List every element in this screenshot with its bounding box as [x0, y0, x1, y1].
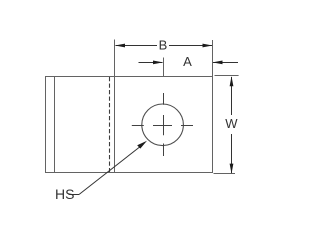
A left arrowhead (points right)	[153, 61, 163, 65]
dimension B line right part	[169, 45, 212, 47]
svg-text:HS: HS	[55, 186, 74, 202]
step edge / B extension line	[114, 40, 116, 173]
B left arrowhead	[115, 44, 125, 48]
svg-text:A: A	[183, 54, 192, 69]
block outline	[46, 77, 213, 173]
HS leader arrowhead	[137, 141, 147, 149]
HS leader stub	[69, 194, 80, 196]
dimension A right tail	[213, 62, 238, 64]
W top arrowhead (points up)	[230, 76, 234, 86]
centerline vertical top tick	[163, 93, 165, 105]
svg-text:B: B	[159, 37, 168, 52]
centerline horizontal left tick	[132, 125, 144, 127]
W bottom extension line	[214, 173, 236, 175]
B right arrowhead	[203, 44, 213, 48]
centerline horizontal center	[153, 125, 172, 127]
centerline horizontal right tick	[181, 125, 193, 127]
centerline vertical center	[163, 115, 165, 135]
dimension W line bottom part	[231, 134, 233, 173]
dimension W line top part	[231, 77, 233, 115]
hidden edge (dashed)	[109, 77, 111, 172]
centerline vertical bottom tick	[163, 144, 165, 157]
hole circle	[142, 104, 184, 146]
W top extension line	[215, 75, 239, 77]
svg-text:W: W	[225, 116, 238, 131]
A extension line	[163, 58, 165, 77]
dimension B line left part	[116, 45, 158, 47]
W bottom arrowhead (points down)	[230, 164, 234, 174]
HS leader diagonal	[79, 144, 143, 194]
A right arrowhead (points left)	[213, 61, 223, 65]
left flange edge	[54, 77, 56, 173]
right extension line above corner	[212, 40, 214, 77]
dimension A left tail	[139, 62, 163, 64]
